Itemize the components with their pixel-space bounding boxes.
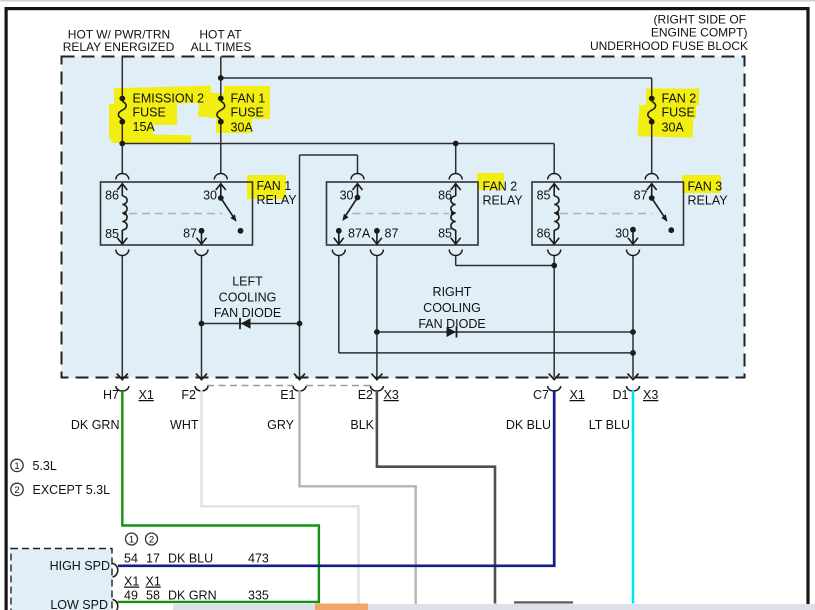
relay K1 pin 30 arrow <box>216 184 226 199</box>
connector bump HIGH SPD <box>113 564 118 578</box>
svg-text:BLK: BLK <box>350 418 374 432</box>
wire net hot-at-all-times horizontal to FAN 2 FUSE <box>221 77 652 79</box>
relay K2 switch blade <box>344 198 357 218</box>
svg-text:FUSE: FUSE <box>662 105 695 119</box>
svg-text:E1: E1 <box>280 388 295 402</box>
connector bumps below relay K1 <box>116 250 208 256</box>
junction node emission fuse output <box>119 141 125 147</box>
wire right cooling fan diode line <box>377 331 633 333</box>
svg-text:30: 30 <box>203 189 217 203</box>
wire node E1 vertical <box>299 155 301 378</box>
wire WHT from F2 <box>202 390 359 610</box>
svg-text:FAN 2: FAN 2 <box>662 92 697 106</box>
svg-text:ALL TIMES: ALL TIMES <box>191 40 252 54</box>
wire left cooling fan diode line <box>202 323 300 325</box>
junction node E2 / right diode <box>374 329 380 335</box>
label RIGHT COOLING FAN DIODE <box>418 285 485 331</box>
relay K1 pin 87 dot <box>199 228 205 234</box>
wire from FAN 1 FUSE down to relay K1 pin 30 <box>220 124 222 173</box>
relay K3 FAN 3 RELAY box <box>532 182 684 245</box>
connector bump D1 <box>627 386 640 391</box>
connector bump LOW SPD <box>113 600 118 610</box>
connector bump F2 <box>195 386 208 391</box>
connector C7 exit arrow <box>549 374 560 380</box>
connector labels X1 X1 <box>124 575 161 589</box>
junction node hot-at-all-times / fan1 fuse <box>218 75 224 81</box>
diode D-right RIGHT COOLING FAN DIODE symbol <box>447 327 457 338</box>
relay K2 coil pin 85 arrow <box>451 230 461 244</box>
svg-text:15A: 15A <box>133 120 156 134</box>
svg-text:FUSE: FUSE <box>133 105 166 119</box>
scrollbar track <box>173 604 815 610</box>
connector pin labels H7 X1 <box>103 388 154 402</box>
relay K2 coil pin 86 arrow <box>451 184 461 197</box>
wire DK BLU from C7 to HIGH SPD <box>118 390 554 566</box>
svg-text:GRY: GRY <box>267 418 295 432</box>
svg-text:RIGHT: RIGHT <box>433 285 472 299</box>
junction node D1 / right diode <box>630 329 636 335</box>
svg-text:F2: F2 <box>181 388 196 402</box>
underhood fuse block dashed box <box>62 57 745 378</box>
svg-text:DK GRN: DK GRN <box>71 418 120 432</box>
relay K1 open contact dot <box>238 228 244 234</box>
svg-text:FUSE: FUSE <box>231 105 264 119</box>
pin row 54 17 DK BLU circuit 473 <box>124 552 269 566</box>
svg-text:X1: X1 <box>124 575 139 589</box>
relay K1 armature dashed link <box>123 212 222 215</box>
relay K1 pin 30 pivot dot <box>218 195 224 201</box>
junction node relay K3 86 / relay K2 85 <box>551 263 557 269</box>
connector bumps above relay K3 <box>548 174 659 180</box>
svg-text:87: 87 <box>183 227 197 241</box>
relay K2 switch arrowhead <box>342 214 348 221</box>
svg-text:FAN DIODE: FAN DIODE <box>214 306 281 320</box>
junction node E1 / left diode <box>297 321 303 327</box>
relay K2 coil winding <box>451 196 456 230</box>
wire feed from HOT W/ PWR/TRN down to EMISSION 2 FUSE <box>121 57 123 96</box>
wire relay K3 pin 30 to connector D1 <box>632 256 634 378</box>
svg-text:X1: X1 <box>139 388 154 402</box>
wire DK GRN from H7 to LOW SPD <box>118 390 319 602</box>
label FAN 1 RELAY <box>257 179 298 207</box>
svg-text:COOLING: COOLING <box>219 291 277 305</box>
wire GRY from E1 <box>300 390 416 610</box>
header label HOT AT ALL TIMES <box>191 28 252 55</box>
relay K1 pin 87 stub arrow <box>197 231 207 244</box>
connector body dashed line F2-E1-E2 <box>207 385 371 387</box>
note 1 5.3L <box>11 459 57 473</box>
svg-text:30: 30 <box>340 189 354 203</box>
svg-text:1: 1 <box>129 535 134 546</box>
relay pin number labels K2 <box>340 189 452 241</box>
svg-text:EMISSION 2: EMISSION 2 <box>133 92 205 106</box>
connector pin labels C7 X1 <box>533 388 585 402</box>
svg-text:LT BLU: LT BLU <box>589 418 630 432</box>
relay K2 pin 87A contact dot <box>336 228 342 234</box>
svg-text:RELAY: RELAY <box>483 194 524 208</box>
svg-text:UNDERHOOD FUSE BLOCK: UNDERHOOD FUSE BLOCK <box>590 39 748 53</box>
partial element edge dark segment <box>514 601 573 603</box>
label FAN 2 RELAY <box>483 180 524 208</box>
label EMISSION 2 FUSE 15A <box>133 92 205 135</box>
svg-text:RELAY: RELAY <box>688 194 729 208</box>
svg-text:86: 86 <box>537 227 551 241</box>
wire drop to relay K2 pin 86 <box>455 144 457 174</box>
svg-text:X1: X1 <box>570 388 585 402</box>
svg-text:(RIGHT SIDE OF: (RIGHT SIDE OF <box>654 13 746 27</box>
svg-text:85: 85 <box>105 227 119 241</box>
connector bump H7 <box>116 386 129 391</box>
relay K2 pin 30 arrow <box>353 184 363 198</box>
svg-text:FAN 3: FAN 3 <box>688 180 723 194</box>
svg-text:FAN 1: FAN 1 <box>257 179 292 193</box>
svg-text:87: 87 <box>385 227 399 241</box>
relay K3 pin 87 arrow <box>647 184 657 199</box>
relay K2 pin 87 dot <box>374 228 380 234</box>
svg-text:X3: X3 <box>643 388 658 402</box>
relay K2 pin 30 pivot dot <box>355 195 361 201</box>
label FAN 1 FUSE 30A <box>231 92 266 135</box>
wire LT BLU from D1 <box>632 390 635 604</box>
wire relay K2 pin 87 to connector E2 <box>376 256 378 378</box>
connector bump E1 <box>293 386 306 391</box>
connector pin labels D1 X3 <box>613 388 659 402</box>
relay K2 armature dashed link <box>353 212 455 215</box>
svg-text:5.3L: 5.3L <box>33 459 57 473</box>
relay K1 FAN 1 RELAY box <box>101 182 253 245</box>
relay K3 armature dashed link <box>556 212 652 215</box>
svg-text:58: 58 <box>146 589 160 603</box>
relay K3 pin 87 pivot dot <box>649 195 655 201</box>
wire net emission-fuse output horizontal to relay K2 86 and relay K3 85 <box>122 143 554 145</box>
junction node relay K2 86 feed <box>453 141 459 147</box>
relay pin number labels K3 <box>537 189 648 241</box>
relay K3 pin 30 stub arrow <box>628 230 638 244</box>
svg-text:RELAY: RELAY <box>257 193 298 207</box>
wire relay K3 pin 86 to connector C7 <box>553 256 555 378</box>
svg-text:EXCEPT 5.3L: EXCEPT 5.3L <box>33 483 111 497</box>
svg-text:X1: X1 <box>146 575 161 589</box>
connector pin labels E2 X3 <box>358 388 399 402</box>
connector bumps below relay K3 <box>548 250 640 256</box>
label LEFT COOLING FAN DIODE <box>214 275 281 321</box>
svg-text:FAN 2: FAN 2 <box>483 180 518 194</box>
svg-text:DK GRN: DK GRN <box>168 589 217 603</box>
relay K3 switch arrowhead <box>661 214 667 221</box>
relay K2 pin 87A stub arrow <box>334 231 344 244</box>
wire FAN 2 FUSE drop <box>651 78 653 96</box>
svg-text:2: 2 <box>149 535 154 546</box>
connector bumps above relay K2 <box>351 174 462 180</box>
relay K1 switch blade <box>221 198 234 218</box>
svg-text:87A: 87A <box>348 227 371 241</box>
svg-text:30A: 30A <box>662 121 685 135</box>
relay K3 coil pin 85 arrow <box>549 184 559 197</box>
wire relay K1 pin 87 to connector F2 <box>201 256 203 378</box>
relay K2 pin 87 stub arrow <box>372 231 382 244</box>
svg-text:C7: C7 <box>533 388 549 402</box>
wire from FAN 2 FUSE down to relay K3 pin 87 <box>651 124 653 173</box>
svg-text:WHT: WHT <box>170 418 199 432</box>
svg-text:LEFT: LEFT <box>232 275 263 289</box>
connector bumps below relay K2 <box>332 250 462 256</box>
junction node D1 / 87A line <box>630 350 636 356</box>
connector E1 exit arrow <box>294 374 305 380</box>
svg-text:HIGH SPD: HIGH SPD <box>50 559 110 573</box>
relay K3 switch blade <box>652 198 665 218</box>
relay K1 coil pin 86 arrow <box>117 184 127 197</box>
svg-text:87: 87 <box>634 189 648 203</box>
relay K3 pin 30 dot <box>630 227 636 233</box>
svg-text:30A: 30A <box>231 121 254 135</box>
wire relay K2 pin 87A to relay K3 pin 30 net <box>339 256 633 353</box>
highlights <box>109 86 721 199</box>
label FAN 3 RELAY <box>688 180 729 208</box>
connector bump E2 <box>370 386 383 391</box>
connector F2 exit arrow <box>196 374 207 380</box>
wire drop to relay K3 pin 85 <box>553 144 555 174</box>
connector D1 exit arrow <box>628 374 639 380</box>
wire feed from HOT AT ALL TIMES down to FAN 1 FUSE <box>220 57 222 96</box>
svg-text:X3: X3 <box>384 388 399 402</box>
cooling fan connector dashed box HIGH SPD / LOW SPD <box>11 549 112 610</box>
svg-text:85: 85 <box>537 189 551 203</box>
connector E2 exit arrow <box>371 374 382 380</box>
note 2 EXCEPT 5.3L <box>11 483 110 497</box>
wire BLK from E2 <box>377 390 495 604</box>
junction node F2 / left diode <box>199 321 205 327</box>
svg-text:17: 17 <box>146 552 160 566</box>
svg-text:473: 473 <box>248 552 269 566</box>
svg-text:2: 2 <box>14 485 19 496</box>
svg-text:H7: H7 <box>103 388 119 402</box>
fuse F2 FAN 1 FUSE 30A symbol <box>217 96 225 125</box>
header label UNDERHOOD FUSE BLOCK (RIGHT SIDE OF ENGINE COMPT) <box>590 13 748 54</box>
svg-text:COOLING: COOLING <box>423 301 481 315</box>
svg-text:49: 49 <box>124 589 138 603</box>
wire relay K1 pin 85 to connector H7 <box>121 256 123 378</box>
svg-text:30: 30 <box>615 227 629 241</box>
svg-text:54: 54 <box>124 552 138 566</box>
relay K1 switch arrowhead <box>230 214 236 221</box>
svg-text:FAN DIODE: FAN DIODE <box>418 317 485 331</box>
svg-text:335: 335 <box>248 589 269 603</box>
relay K1 coil winding <box>122 196 127 230</box>
svg-text:DK BLU: DK BLU <box>168 552 213 566</box>
note markers 1 2 above pin table <box>126 533 158 546</box>
wire from relay K2 pin 30 up and left to node E1 <box>300 155 358 173</box>
relay K2 FAN 2 RELAY box <box>327 182 479 245</box>
svg-text:E2: E2 <box>358 388 373 402</box>
diode D-left LEFT COOLING FAN DIODE symbol <box>240 318 251 329</box>
svg-text:DK BLU: DK BLU <box>506 418 551 432</box>
wire from EMISSION 2 FUSE down to relay K1 pin 86 <box>121 124 123 173</box>
svg-text:D1: D1 <box>613 388 629 402</box>
wire relay K2 pin 85 to relay K3 pin 86 <box>456 256 555 266</box>
svg-text:85: 85 <box>438 227 452 241</box>
svg-text:RELAY ENERGIZED: RELAY ENERGIZED <box>63 40 175 54</box>
connector bump C7 <box>548 386 561 391</box>
svg-text:86: 86 <box>438 189 452 203</box>
relay K3 coil pin 86 arrow <box>549 230 559 244</box>
relay K3 coil winding <box>554 196 559 230</box>
relay K3 open contact dot <box>668 227 674 233</box>
fuse F3 FAN 2 FUSE 30A symbol <box>648 96 656 125</box>
relay pin number labels K1 <box>105 189 217 242</box>
svg-text:86: 86 <box>105 189 119 203</box>
scrollbar thumb orange <box>315 604 368 610</box>
svg-text:1: 1 <box>14 461 19 472</box>
relay K1 coil pin 85 arrow <box>117 230 127 244</box>
pin row 49 58 DK GRN circuit 335 <box>124 589 269 603</box>
label FAN 2 FUSE 30A <box>662 92 697 135</box>
svg-text:FAN 1: FAN 1 <box>231 92 266 106</box>
header label HOT W/ PWR/TRN RELAY ENERGIZED <box>63 28 175 55</box>
connector bumps above relay K1 <box>116 174 228 180</box>
fuse F1 EMISSION 2 FUSE 15A symbol <box>118 96 126 125</box>
svg-text:LOW SPD: LOW SPD <box>50 598 108 610</box>
svg-text:ENGINE COMPT): ENGINE COMPT) <box>651 26 748 40</box>
connector H7 exit arrow <box>117 374 128 380</box>
